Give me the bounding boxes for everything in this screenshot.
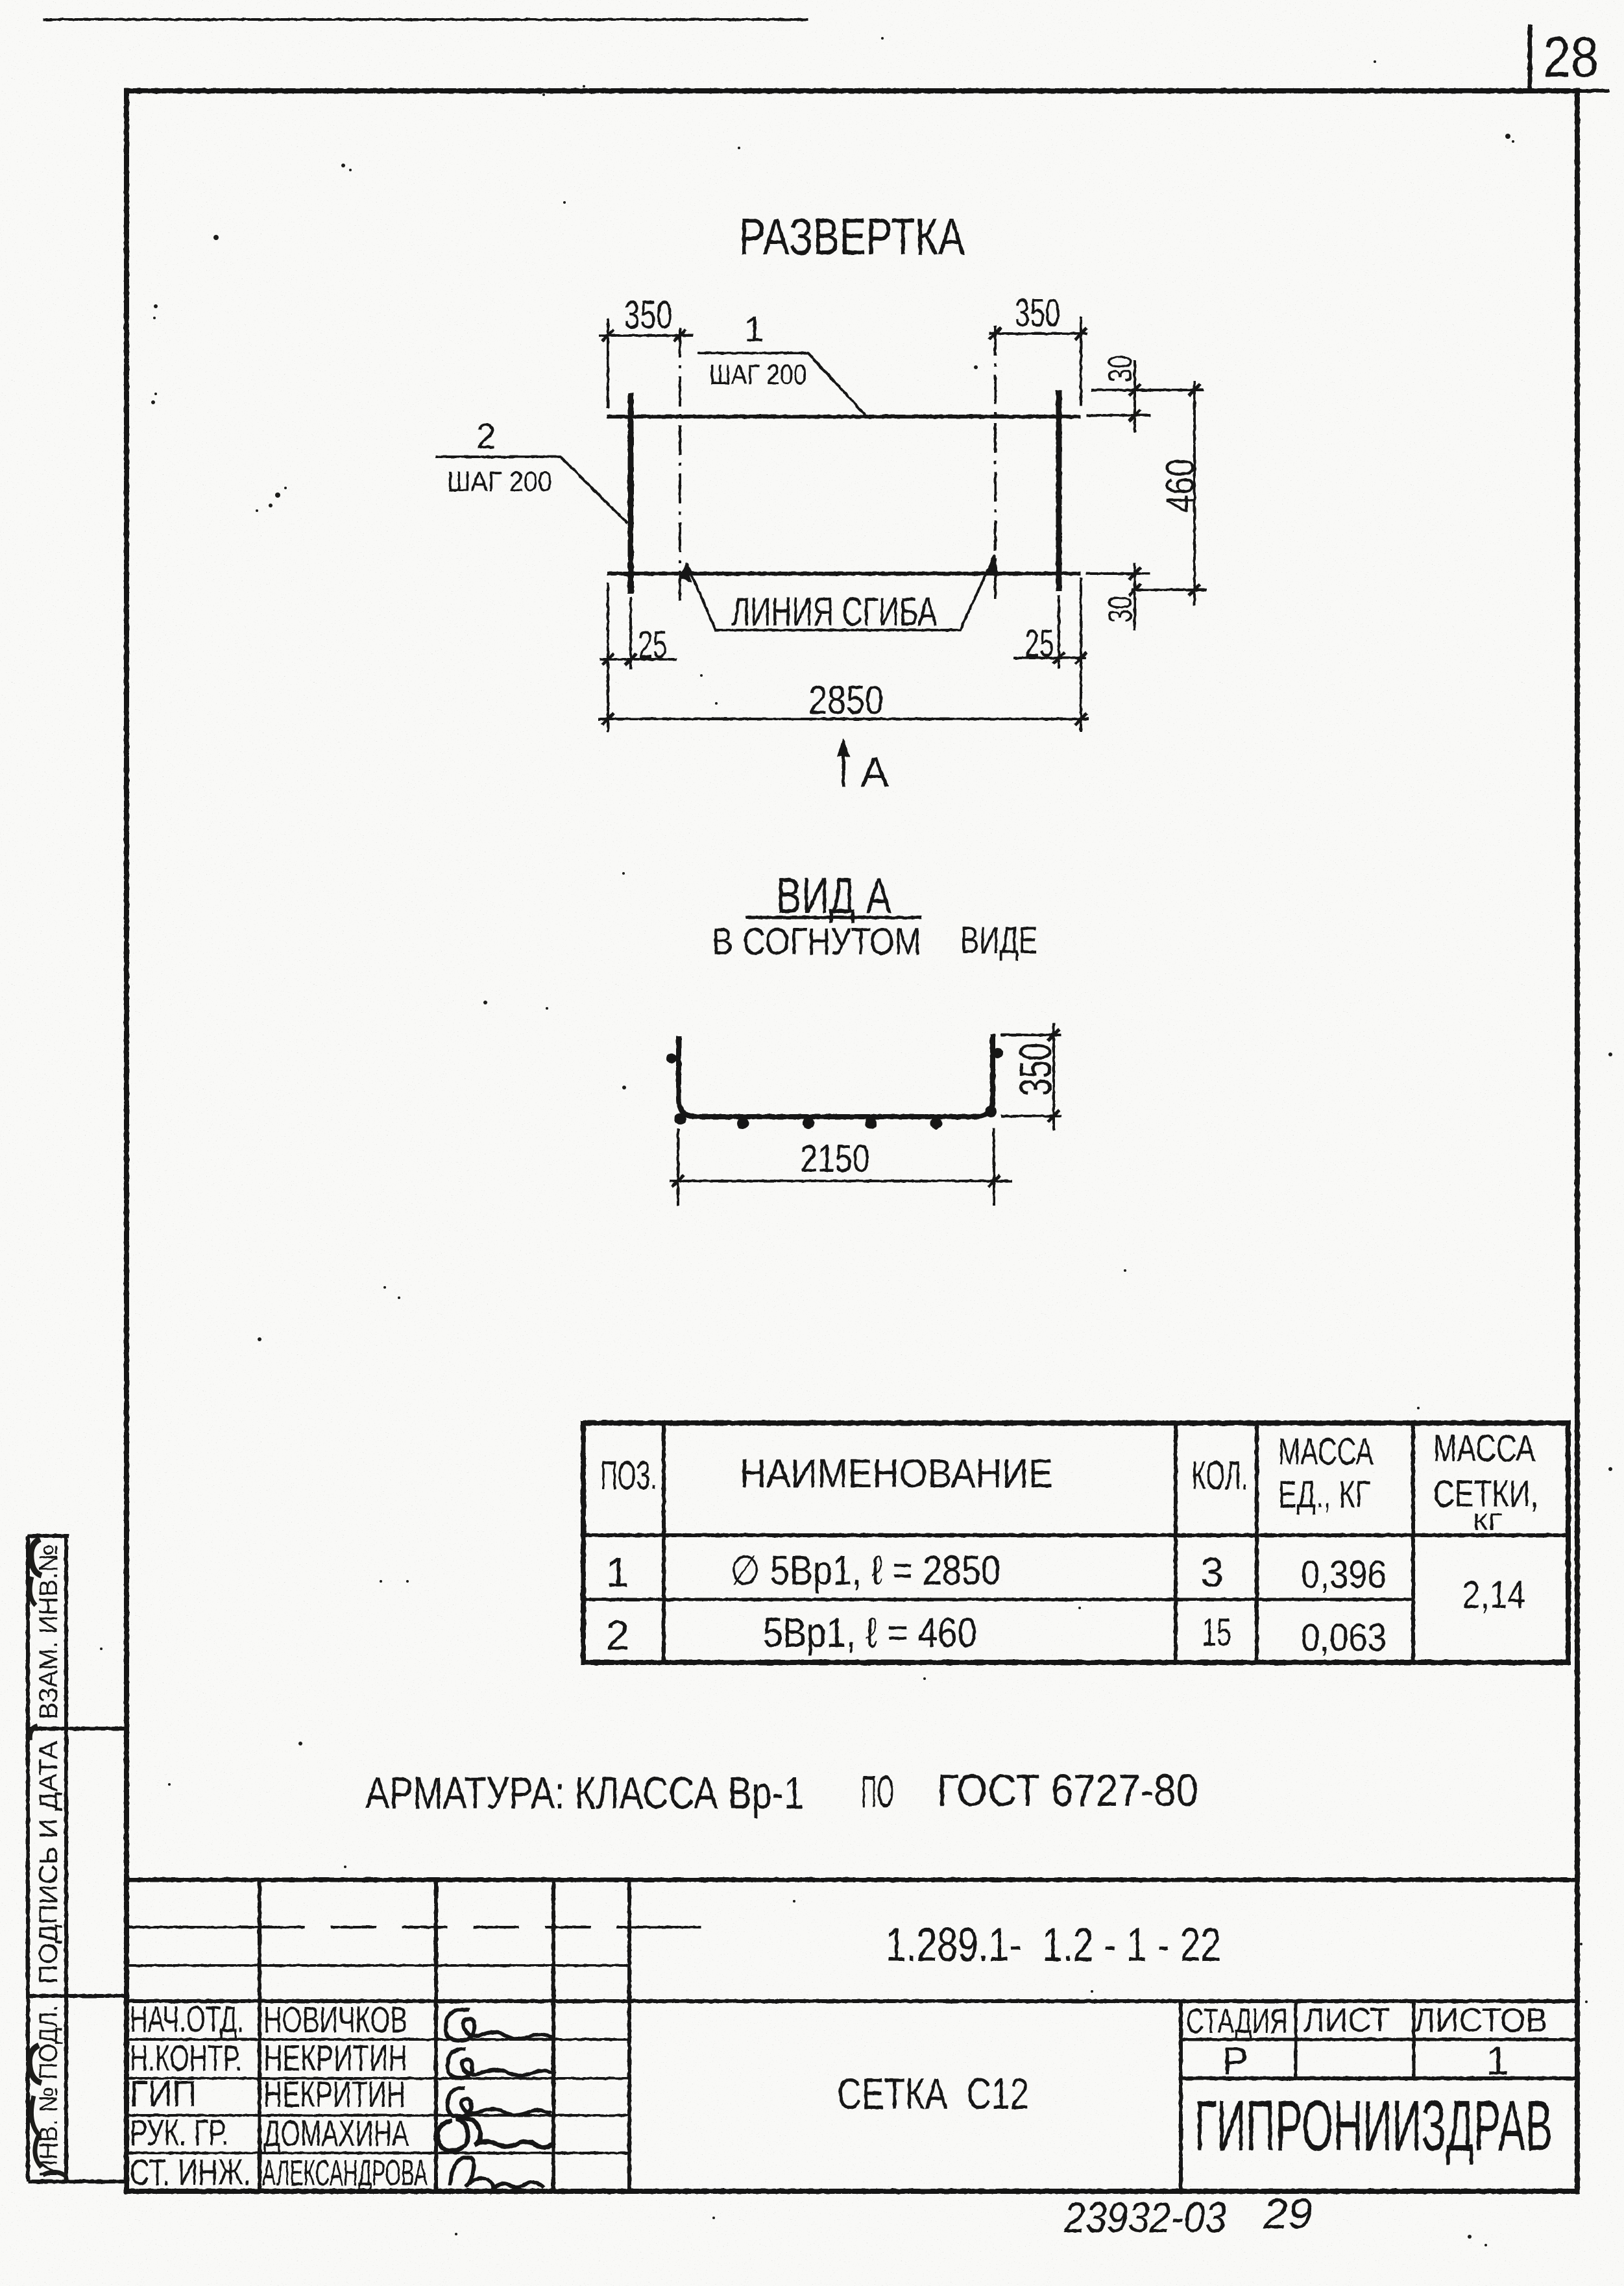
fold label leader lines — [686, 555, 995, 630]
title block top line — [127, 1878, 1577, 1882]
title block column line x970 — [627, 1880, 631, 2191]
title block row line y3329 — [127, 2152, 629, 2154]
title underline — [745, 916, 921, 919]
svg-text:28: 28 — [1543, 25, 1599, 89]
cross wire dot — [985, 1106, 997, 1117]
svg-text:РАЗВЕРТКА: РАЗВЕРТКА — [739, 208, 965, 265]
stadiya section verticals — [1179, 2001, 1183, 2191]
dim 350 bent: extensions, line, ticks — [1001, 1034, 1061, 1036]
fold label arrowhead right — [986, 553, 999, 575]
svg-text:ЛИСТ: ЛИСТ — [1303, 2002, 1390, 2039]
title block column line x400 — [258, 1880, 261, 2191]
signature 2 — [448, 2049, 555, 2078]
bar 2 left vertical — [628, 393, 634, 594]
dim 25 left: line, ticks, extensions — [600, 658, 677, 661]
svg-text:30: 30 — [1102, 355, 1139, 382]
cross wire dot — [803, 1117, 814, 1129]
svg-text:НАИМЕНОВАНИЕ: НАИМЕНОВАНИЕ — [740, 1452, 1053, 1496]
dim 2850: line, ticks, left extension — [598, 718, 1089, 720]
cross wire dot — [993, 1048, 1003, 1058]
svg-text:В СОГНУТОМ: В СОГНУТОМ — [712, 921, 921, 963]
view arrow A head — [837, 738, 850, 757]
svg-text:ЛИСТОВ: ЛИСТОВ — [1414, 2002, 1547, 2039]
cross wire dot — [865, 1117, 877, 1129]
title block row line y2970 — [127, 1926, 260, 1928]
margin divider 2 — [28, 1994, 127, 1998]
svg-text:РУК. ГР.: РУК. ГР. — [130, 2112, 228, 2154]
dim 2150: extensions, line, ticks — [677, 1128, 679, 1206]
svg-text:АРМАТУРА: КЛАССА Вр-1: АРМАТУРА: КЛАССА Вр-1 — [365, 1768, 804, 1818]
margin smudge middle — [30, 1726, 38, 1740]
signature 4 — [437, 2119, 555, 2151]
dim 350 right: line, ticks, extension — [989, 332, 1087, 335]
svg-text:ЕД., КГ: ЕД., КГ — [1278, 1474, 1370, 1516]
fold line right dash-dot — [994, 326, 997, 600]
wire 1 bottom horizontal — [607, 572, 1081, 576]
svg-text:МАССА: МАССА — [1433, 1428, 1535, 1470]
svg-text:350: 350 — [624, 293, 673, 337]
svg-text:КГ: КГ — [1473, 1509, 1503, 1535]
margin smudge top — [31, 1539, 42, 1575]
dim 350 left: line, ticks, extension — [599, 334, 693, 337]
svg-text:1: 1 — [744, 309, 764, 349]
svg-text:ИНВ. № ПОДЛ.: ИНВ. № ПОДЛ. — [34, 2005, 63, 2177]
svg-text:МАССА: МАССА — [1278, 1431, 1374, 1473]
table column line 1 — [662, 1423, 666, 1662]
svg-text:ДОМАХИНА: ДОМАХИНА — [263, 2113, 409, 2154]
title block row line y3268 — [127, 2114, 629, 2117]
signature 1 — [446, 2010, 555, 2041]
table header row line — [583, 1533, 1568, 1537]
svg-text:2: 2 — [606, 1612, 629, 1659]
svg-text:АЛЕКСАНДРОВА: АЛЕКСАНДРОВА — [262, 2152, 428, 2194]
svg-text:КОЛ.: КОЛ. — [1192, 1453, 1248, 1498]
fold label arrowhead left — [679, 562, 692, 583]
svg-text:Р: Р — [1222, 2039, 1248, 2083]
cross wire dot — [666, 1053, 677, 1064]
margin divider 1 — [28, 1727, 127, 1731]
margin box label vertical — [64, 1536, 68, 2182]
svg-text:29: 29 — [1263, 2189, 1313, 2237]
svg-text:ПОДПИСЬ И ДАТА: ПОДПИСЬ И ДАТА — [34, 1741, 63, 1984]
svg-text:1: 1 — [1486, 2039, 1509, 2084]
svg-text:ГИПРОНИИЗДРАВ: ГИПРОНИИЗДРАВ — [1194, 2086, 1553, 2166]
svg-text:15: 15 — [1202, 1611, 1231, 1654]
page top edge line — [43, 18, 808, 21]
svg-text:ШАГ 200: ШАГ 200 — [447, 466, 552, 498]
svg-text:СЕТКА С12: СЕТКА С12 — [837, 2069, 1029, 2119]
svg-text:350: 350 — [1010, 1043, 1061, 1096]
svg-text:1: 1 — [606, 1549, 629, 1596]
frame top extension right — [1577, 89, 1609, 93]
cross wire dot — [930, 1117, 942, 1129]
title block column line x672 — [434, 1880, 438, 2191]
svg-text:А: А — [860, 748, 889, 796]
svg-text:460: 460 — [1158, 459, 1203, 513]
table row line — [583, 1598, 1413, 1601]
margin box bottom — [28, 2180, 127, 2183]
leader 2 — [435, 457, 627, 523]
svg-text:23932-03: 23932-03 — [1063, 2193, 1226, 2241]
bar 2 right vertical — [1056, 390, 1062, 591]
title block row line y3205 — [127, 2077, 629, 2080]
svg-text:25: 25 — [1025, 622, 1054, 665]
svg-text:2850: 2850 — [808, 678, 884, 723]
view arrow A line — [842, 748, 845, 786]
svg-text:5Вр1, ℓ = 460: 5Вр1, ℓ = 460 — [763, 1609, 977, 1656]
svg-text:1.289.1- 1.2 - 1 - 22: 1.289.1- 1.2 - 1 - 22 — [886, 1919, 1221, 1971]
wire 1 top horizontal — [607, 415, 1081, 419]
svg-text:2: 2 — [476, 416, 496, 456]
title block row line y3029 — [127, 1964, 629, 1967]
leader 1 — [697, 353, 866, 415]
table column line 3 — [1255, 1423, 1259, 1662]
svg-text:2150: 2150 — [801, 1137, 870, 1180]
svg-text:2,14: 2,14 — [1462, 1573, 1525, 1616]
signature 3 — [448, 2088, 551, 2117]
svg-text:СТ. ИНЖ.: СТ. ИНЖ. — [130, 2152, 251, 2193]
svg-text:ШАГ 200: ШАГ 200 — [709, 359, 806, 391]
svg-text:ПО: ПО — [861, 1766, 894, 1817]
table outer border — [583, 1423, 1568, 1662]
cross wire dot — [737, 1117, 749, 1129]
signature 5 — [450, 2158, 544, 2189]
svg-text:0,396: 0,396 — [1301, 1553, 1387, 1596]
margin smudge bottom — [29, 2045, 42, 2083]
svg-text:НОВИЧКОВ: НОВИЧКОВ — [263, 1999, 407, 2041]
margin box top — [28, 1534, 69, 1538]
svg-text:ЛИНИЯ СГИБА: ЛИНИЯ СГИБА — [731, 590, 937, 635]
channel bent mesh — [679, 1034, 993, 1117]
svg-text:ВИД А: ВИД А — [776, 867, 891, 924]
svg-text:25: 25 — [638, 623, 668, 666]
title block column line x853 — [551, 1880, 555, 2191]
svg-text:∅ 5Вр1, ℓ = 2850: ∅ 5Вр1, ℓ = 2850 — [730, 1547, 1000, 1594]
svg-text:ВИДЕ: ВИДЕ — [960, 919, 1037, 962]
svg-text:ГИП: ГИП — [130, 2073, 197, 2115]
title block row line y3143 — [127, 2038, 629, 2041]
dim 30 bottom: extensions, line, ticks — [1086, 572, 1150, 575]
svg-text:ГОСТ 6727-80: ГОСТ 6727-80 — [937, 1765, 1198, 1816]
svg-text:3: 3 — [1200, 1549, 1224, 1596]
svg-text:350: 350 — [1015, 291, 1060, 335]
dim 25 right: line, ticks, extensions — [1013, 657, 1086, 659]
svg-text:НЕКРИТИН: НЕКРИТИН — [263, 2037, 407, 2079]
svg-text:30: 30 — [1102, 596, 1139, 623]
dim 460: line, ticks, bottom extension — [1193, 381, 1196, 605]
svg-text:СТАДИЯ: СТАДИЯ — [1186, 2002, 1288, 2041]
svg-text:ПОЗ.: ПОЗ. — [601, 1453, 657, 1498]
dim 30 top: extensions, line, ticks — [1091, 389, 1204, 391]
table column line 4 — [1411, 1423, 1415, 1662]
stadiya header row line — [1181, 2038, 1577, 2041]
margin box left vertical — [26, 1536, 30, 2182]
svg-text:0,063: 0,063 — [1301, 1616, 1387, 1659]
stadiya row bottom / gipro box top — [1181, 2076, 1577, 2080]
title block row line y3084 (major) — [127, 1999, 1577, 2003]
page number tick — [1528, 25, 1533, 91]
cross wire dot — [675, 1113, 686, 1125]
svg-text:ВЗАМ. ИНВ.№: ВЗАМ. ИНВ.№ — [34, 1544, 63, 1720]
svg-text:НЕКРИТИН: НЕКРИТИН — [263, 2074, 406, 2115]
table column line 2 — [1174, 1423, 1178, 1662]
fold line left dash-dot — [679, 328, 681, 603]
svg-text:НАЧ.ОТД.: НАЧ.ОТД. — [130, 1999, 244, 2040]
